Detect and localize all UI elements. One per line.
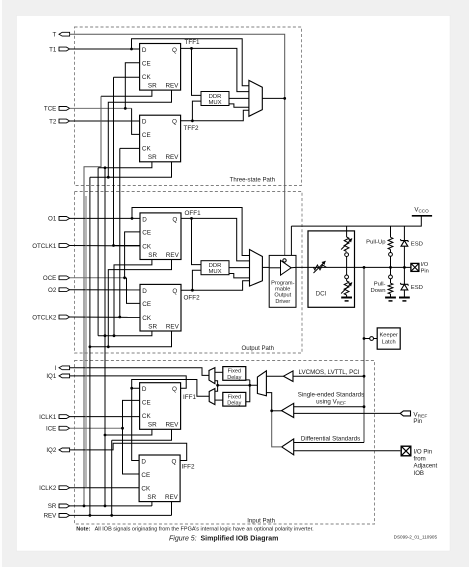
wire OFF1.REV to REV column: [108, 260, 171, 347]
svg-text:SR: SR: [48, 503, 57, 510]
junction OCE branch: [123, 276, 126, 279]
wire OFF2.Q to DDR MUX2 in2: [192, 270, 201, 290]
wire pad to buffer B2 input: [294, 406, 364, 408]
junction O1 branch: [131, 217, 134, 220]
svg-text:CK: CK: [141, 485, 151, 492]
mux M5 (input standard mux): [257, 371, 266, 396]
svg-text:REV: REV: [165, 422, 179, 429]
svg-text:T: T: [53, 32, 57, 39]
svg-text:CK: CK: [142, 413, 152, 420]
junction OFF2.Q branch: [191, 289, 194, 292]
net label LVCMOS, LVTTL, PCI: [299, 369, 360, 376]
wire DCI pull-down from I/O line: [346, 267, 348, 275]
svg-text:MUX: MUX: [208, 269, 221, 275]
power VCCO: [412, 207, 432, 216]
wire ESD upper from VCCO rail: [403, 226, 405, 267]
svg-text:Fixed: Fixed: [228, 369, 241, 375]
wire pad to buffer B1 input: [293, 375, 364, 377]
wire I/O line to input path tap: [363, 267, 365, 442]
junction ESD junction: [403, 266, 406, 269]
wire TFF1.Q to mux M1 in2: [192, 48, 249, 91]
svg-text:Note: All IOB signals origin: Note: All IOB signals originating from t…: [76, 526, 314, 532]
wire O2 to OFF2.D: [70, 289, 141, 291]
pin VREF: [400, 411, 427, 425]
wire D line to IFF2.D: [132, 388, 139, 460]
svg-text:CE: CE: [142, 301, 151, 308]
svg-text:D: D: [142, 216, 147, 223]
wire ICE to IFF1.CE and IFF2.CE: [123, 400, 140, 474]
svg-text:Keeper: Keeper: [380, 333, 398, 339]
junction input tap junction: [363, 266, 366, 269]
svg-text:Latch: Latch: [382, 340, 396, 346]
svg-text:SR: SR: [147, 494, 156, 501]
wire FD1 input stub: [246, 379, 250, 381]
svg-text:Driver: Driver: [275, 299, 290, 305]
svg-text:TCE: TCE: [44, 106, 56, 113]
wire OFF1.Q to mux M2 in2: [192, 218, 250, 261]
pin OCE: [43, 275, 70, 282]
svg-text:Three-state Path: Three-state Path: [230, 177, 275, 184]
wire three-state control line: [284, 98, 286, 259]
wire keeper latch connection: [364, 338, 370, 340]
svg-text:SR: SR: [148, 154, 157, 161]
wire D line from mux M4: [132, 380, 210, 397]
pin T1: [49, 46, 70, 53]
wire OFF1.SR to SR column: [114, 260, 152, 336]
junction TFF1.SR to SR line: [83, 505, 86, 508]
wire OTCLK2 to OFF2.CK: [70, 316, 141, 318]
wire VREF line to buffer B2: [294, 412, 401, 414]
wire REV column B: [89, 177, 91, 515]
wire IFF1.REV to REV column: [112, 429, 172, 440]
I/O pad pin: [411, 262, 429, 274]
mux M3 (I output delay mux): [209, 368, 215, 384]
wire OTCLK1 column: [114, 77, 140, 245]
wire pull-down from I/O line: [390, 267, 392, 275]
svg-text:Output: Output: [274, 293, 291, 299]
wire DCI pull-up to I/O line: [346, 257, 348, 268]
junction TFF2.SR junction with SR column: [104, 166, 107, 169]
svg-text:IQ1: IQ1: [46, 373, 57, 380]
svg-text:REV: REV: [166, 323, 180, 330]
wire I output from mux M3: [70, 368, 210, 376]
DCI block: [308, 231, 355, 307]
pin REV: [44, 513, 70, 520]
wire TFF1.SR run to SR line: [84, 96, 101, 506]
svg-text:Input Path: Input Path: [247, 518, 275, 525]
junction ICE branch: [121, 427, 124, 430]
delay block Fixed Delay 1: [223, 367, 246, 381]
wire TFF1.SR exit: [101, 90, 152, 96]
junction TFF1.Q branch: [190, 47, 193, 50]
wire OTCLK2 column: [119, 148, 121, 317]
wire TCE to TFF1.CE: [125, 63, 139, 109]
svg-text:TFF1: TFF1: [185, 39, 201, 46]
wire VCCO to driver: [290, 226, 292, 255]
svg-text:I/O Pin: I/O Pin: [414, 448, 433, 455]
wire IFF1.REV column: [111, 440, 113, 515]
svg-text:CE: CE: [142, 132, 151, 139]
wire TFF2.REV to REV column: [90, 162, 172, 177]
svg-text:D: D: [142, 386, 147, 393]
svg-text:REV: REV: [165, 82, 179, 89]
mux M1: [249, 80, 262, 116]
wire IFF1.SR to SR column: [105, 429, 152, 435]
svg-text:O1: O1: [48, 216, 57, 223]
wire OTCLK1 column to TFF1.CK: [114, 76, 140, 78]
DCI pull-up switch contact: [345, 253, 349, 257]
svg-text:D: D: [142, 288, 147, 295]
junction pull-up junction: [389, 266, 392, 269]
Input Path section box: [75, 361, 375, 525]
svg-text:Q: Q: [172, 386, 177, 393]
svg-text:Fixed: Fixed: [228, 394, 241, 400]
buffer B2 VREF single-ended: [282, 403, 294, 417]
wire main input line: [218, 384, 258, 386]
wire DCI pull-up to VCCO rail: [346, 226, 348, 237]
svg-text:SR: SR: [148, 82, 157, 89]
DCI series impedance Z0: [314, 261, 327, 273]
svg-text:O2: O2: [48, 287, 57, 294]
wire FD1 out to mux M3 in1: [215, 371, 223, 373]
wire gray column G2: [85, 196, 87, 488]
wire pull-up to I/O line: [390, 256, 392, 267]
net label Single-ended Standards using VREF: [298, 391, 364, 405]
flip-flop IFF1: [140, 383, 181, 430]
svg-text:CE: CE: [142, 400, 151, 407]
wire TCE line: [70, 107, 132, 109]
wire DDR MUX2 out to mux M2 in3: [229, 267, 250, 269]
pull-down switch contact: [389, 275, 393, 279]
svg-text:Q: Q: [172, 288, 177, 295]
wire pull-up to switch: [390, 250, 392, 253]
svg-text:Differential Standards: Differential Standards: [301, 435, 360, 442]
svg-text:ICLK1: ICLK1: [39, 414, 57, 421]
Output Path section box: [75, 192, 303, 354]
wire T1 to TFF1.D: [70, 48, 140, 50]
svg-text:T2: T2: [49, 118, 57, 125]
pin T2: [49, 118, 70, 125]
pin ICLK1: [39, 414, 70, 421]
junction OTCLK2 branch: [118, 316, 121, 319]
wire DDR MUX out2 to mux M1 in4: [229, 104, 249, 107]
svg-text:mable: mable: [275, 287, 290, 293]
junction OFF2.SR junction with SR column: [104, 334, 107, 337]
wire ICLK1 to IFF1.CK: [70, 416, 140, 418]
wire direct to mux M3 in2 and M4 in1: [215, 381, 218, 392]
wire pad to buffer B3 input: [294, 442, 364, 444]
wire TFF2.Q to mux M1 in5: [181, 110, 249, 121]
svg-text:Q: Q: [171, 458, 176, 465]
junction riser junction: [270, 409, 273, 412]
svg-text:Output Path: Output Path: [241, 345, 274, 352]
svg-text:CE: CE: [142, 60, 151, 67]
pin SR: [48, 503, 70, 510]
svg-text:Delay: Delay: [227, 401, 241, 407]
resistor pull-up: [366, 237, 393, 249]
label OFF1: [185, 210, 202, 217]
wire driver output to I/O line: [291, 266, 411, 268]
wire TFF1.Q to DDR MUX in1: [181, 48, 201, 95]
wire mux M2 output to driver: [262, 266, 269, 268]
junction IFF1.SR junction: [104, 434, 107, 437]
svg-text:IOB: IOB: [414, 470, 425, 477]
wire OFF2.REV to REV column: [90, 331, 172, 347]
wire O1 to OFF1.D: [70, 217, 141, 219]
wire mux M5 lower input riser: [266, 393, 271, 411]
wire OTCLK2 column to TFF2.CK: [120, 147, 140, 149]
pin O1: [48, 216, 70, 223]
svg-text:IFF1: IFF1: [183, 394, 196, 401]
junction pad tap B2: [363, 405, 366, 408]
wire OFF2.SR to SR column: [98, 331, 152, 336]
svg-text:IQ2: IQ2: [46, 447, 57, 454]
wire DDR MUX2 out2 to mux M2 in4: [229, 274, 250, 278]
wire OCE line: [70, 277, 127, 279]
wire ICLK2 to IFF2.CK: [70, 487, 140, 489]
svg-text:Q: Q: [172, 47, 177, 54]
wire FD1 input from main line: [246, 380, 250, 402]
junction IFF1.REV to REV line: [110, 514, 113, 517]
wire driver input: [269, 267, 280, 269]
svg-text:Delay: Delay: [227, 375, 241, 381]
wire OTCLK1 to OFF1.CK: [70, 245, 141, 247]
svg-text:I/O: I/O: [421, 262, 429, 268]
ground (ESD): [399, 298, 410, 301]
wire ESD lower from I/O line: [403, 267, 405, 297]
wire IFF2.SR to SR line: [151, 502, 153, 506]
svg-text:ESD: ESD: [411, 285, 423, 291]
svg-text:DS099-2_01_110905: DS099-2_01_110905: [394, 534, 438, 539]
svg-text:OTCLK1: OTCLK1: [32, 243, 57, 250]
wire ICE line: [70, 427, 123, 429]
Three-state Path section box: [75, 27, 302, 186]
svg-text:Adjacent: Adjacent: [414, 463, 438, 470]
svg-text:Program-: Program-: [271, 280, 294, 286]
svg-text:Q: Q: [172, 216, 177, 223]
junction FD branch: [248, 384, 251, 387]
pin TCE: [44, 106, 70, 113]
wire T1 bypass to mux M1 in1: [132, 39, 249, 86]
keeper latch: [377, 328, 400, 349]
wire keeper stub: [374, 338, 378, 340]
svg-text:Pull-: Pull-: [374, 282, 386, 288]
junction SR column to SR line: [104, 505, 107, 508]
label IFF2: [182, 463, 195, 470]
svg-text:CE: CE: [141, 472, 150, 479]
resistor pull-down: [370, 279, 392, 298]
svg-text:Pin: Pin: [421, 268, 429, 274]
label IFF1: [183, 394, 196, 401]
svg-text:REV: REV: [165, 494, 179, 501]
junction direct branch: [216, 384, 219, 387]
wire REV line: [70, 514, 172, 516]
wire OCE to OFF2.CE: [127, 278, 141, 304]
pin I/O from adjacent IOB: [401, 446, 437, 477]
wire IFF2.REV to REV line: [171, 502, 173, 516]
pin OTCLK2: [32, 314, 69, 321]
wire O1 bypass to mux M2 in1: [132, 208, 250, 256]
wire adjacent IOB line to buffer B3: [294, 450, 401, 452]
svg-text:from: from: [414, 456, 426, 463]
svg-text:DCI: DCI: [316, 290, 327, 297]
flip-flop OFF2: [140, 284, 181, 331]
keeper switch contact: [370, 337, 374, 341]
junction OTCLK1 branch: [112, 244, 115, 247]
DCI pull-up variable resistor: [341, 237, 352, 252]
svg-text:Pull-Up: Pull-Up: [366, 240, 386, 246]
svg-text:IFF2: IFF2: [182, 463, 195, 470]
DCI pull-down switch contact: [345, 275, 349, 279]
junction OFF1.SR junction: [113, 334, 116, 337]
svg-text:DDR: DDR: [209, 94, 222, 100]
svg-text:CE: CE: [142, 230, 151, 237]
junction pad tap B1: [363, 375, 366, 378]
svg-text:DDR: DDR: [209, 263, 222, 269]
DCI pull-down variable resistor: [341, 279, 352, 298]
diode ESD upper: [400, 239, 423, 247]
net label Differential Standards: [301, 435, 360, 442]
junction OFF1.REV junction: [107, 345, 110, 348]
wire OFF2.Q to mux M2 in5: [181, 281, 250, 290]
wire T2 to TFF2.D: [70, 120, 140, 122]
svg-text:OCE: OCE: [43, 275, 56, 282]
svg-text:LVCMOS, LVTTL, PCI: LVCMOS, LVTTL, PCI: [299, 369, 360, 376]
DDR MUX (output): [201, 261, 229, 275]
svg-text:D: D: [142, 119, 147, 126]
wire IQ2 from IFF2.Q: [70, 443, 187, 460]
inverter bubble on driver three-state input: [283, 259, 286, 262]
mux M2: [250, 250, 263, 287]
junction T1 branch: [130, 48, 133, 51]
flip-flop TFF1: [140, 44, 181, 91]
wire T to three-state junction: [70, 34, 285, 98]
svg-text:Down: Down: [370, 288, 385, 294]
wire OFF1.Q to DDR MUX2 in1: [181, 218, 201, 264]
svg-text:using VREF: using VREF: [316, 399, 346, 406]
svg-text:SR: SR: [148, 252, 157, 259]
svg-text:D: D: [141, 458, 146, 465]
label TFF1: [185, 39, 201, 46]
svg-text:SR: SR: [148, 422, 157, 429]
programmable output driver U1: [269, 255, 296, 307]
svg-text:D: D: [142, 47, 147, 54]
wire pull-up from VCCO rail: [390, 226, 392, 237]
svg-text:MUX: MUX: [208, 100, 221, 106]
wire SR column: [104, 168, 106, 506]
svg-text:OTCLK2: OTCLK2: [32, 314, 57, 321]
svg-text:I: I: [55, 365, 57, 372]
pin O2: [48, 287, 70, 294]
pin OTCLK1: [32, 243, 69, 250]
note text: [76, 526, 314, 532]
junction keeper junction: [363, 337, 366, 340]
drawing number: [394, 534, 438, 539]
svg-text:SR: SR: [148, 323, 157, 330]
junction OFF1.Q branch: [190, 217, 193, 220]
wire mux M5 riser to differential buffer: [272, 411, 282, 447]
svg-text:REV: REV: [44, 513, 58, 520]
svg-text:REV: REV: [166, 252, 180, 259]
junction D branch: [130, 387, 133, 390]
pin ICLK2: [39, 485, 70, 492]
junction OFF2.REV junction: [89, 345, 92, 348]
buffer B1 LVCMOS/LVTTL/PCI: [284, 371, 294, 382]
svg-text:CK: CK: [142, 315, 152, 322]
pull-up switch contact: [389, 253, 393, 257]
svg-text:Pin: Pin: [413, 418, 422, 425]
wire buffer B1 out to mux M5 in1: [266, 375, 283, 377]
wire TFF2.Q to DDR MUX in2: [192, 101, 201, 121]
junction TFF1.REV junction: [107, 176, 110, 179]
svg-text:REV: REV: [165, 154, 179, 161]
wire DDR MUX out to mux M1 in3: [229, 97, 249, 99]
junction three-state junction: [283, 97, 286, 100]
svg-text:T1: T1: [49, 46, 57, 53]
pin ICE: [46, 426, 70, 433]
junction TCE branch: [124, 107, 127, 110]
svg-text:Q: Q: [172, 119, 177, 126]
svg-text:TFF2: TFF2: [184, 125, 200, 132]
pin IQ1: [46, 373, 69, 380]
pin IQ2: [46, 447, 69, 454]
wire SR line: [70, 505, 152, 507]
wire TCE to TFF2.CE: [132, 108, 140, 134]
svg-text:ICLK2: ICLK2: [39, 485, 57, 492]
svg-text:VCCO: VCCO: [414, 207, 429, 214]
delay block Fixed Delay 2: [223, 392, 246, 406]
ground (DCI): [341, 298, 352, 301]
flip-flop IFF2: [139, 455, 180, 502]
flip-flop TFF2: [140, 115, 181, 162]
label OFF2: [184, 294, 201, 301]
wire buffer B2 out to riser: [272, 410, 282, 412]
DDR MUX (three-state): [201, 92, 229, 106]
buffer B3 differential: [282, 439, 294, 455]
diode ESD lower: [400, 283, 423, 291]
label TFF2: [184, 125, 200, 132]
wire TFF2.SR to SR column: [98, 162, 152, 168]
svg-text:Figure 5: Simplified IOB Diag: Figure 5: Simplified IOB Diagram: [169, 536, 278, 543]
wire VCCO rail: [291, 216, 421, 226]
svg-text:OFF2: OFF2: [184, 294, 201, 301]
mux M4 (register delay mux): [209, 389, 215, 405]
pin I: [55, 365, 70, 372]
wire IQ1 from IFF1.Q: [70, 376, 187, 388]
svg-text:CK: CK: [142, 146, 152, 153]
wire FD2 out to mux M4 in2: [215, 399, 223, 401]
junction TFF2.Q branch: [191, 119, 194, 122]
svg-text:ICE: ICE: [46, 426, 56, 433]
svg-text:CK: CK: [142, 243, 152, 250]
pin T: [53, 32, 70, 39]
svg-text:Single-ended Standards: Single-ended Standards: [298, 391, 364, 398]
flip-flop OFF1: [140, 213, 181, 260]
svg-text:OFF1: OFF1: [185, 210, 202, 217]
wire mux M1 output: [262, 97, 284, 99]
figure caption: [169, 536, 278, 543]
junction REV column B to REV line: [89, 514, 92, 517]
wire OCE to OFF1.CE: [125, 232, 140, 278]
wire TFF1.REV to REV column: [108, 90, 171, 177]
svg-text:ESD: ESD: [411, 241, 423, 247]
svg-text:CK: CK: [142, 74, 152, 81]
ground (pull-down): [385, 298, 396, 301]
wire SR mid column: [97, 168, 99, 336]
